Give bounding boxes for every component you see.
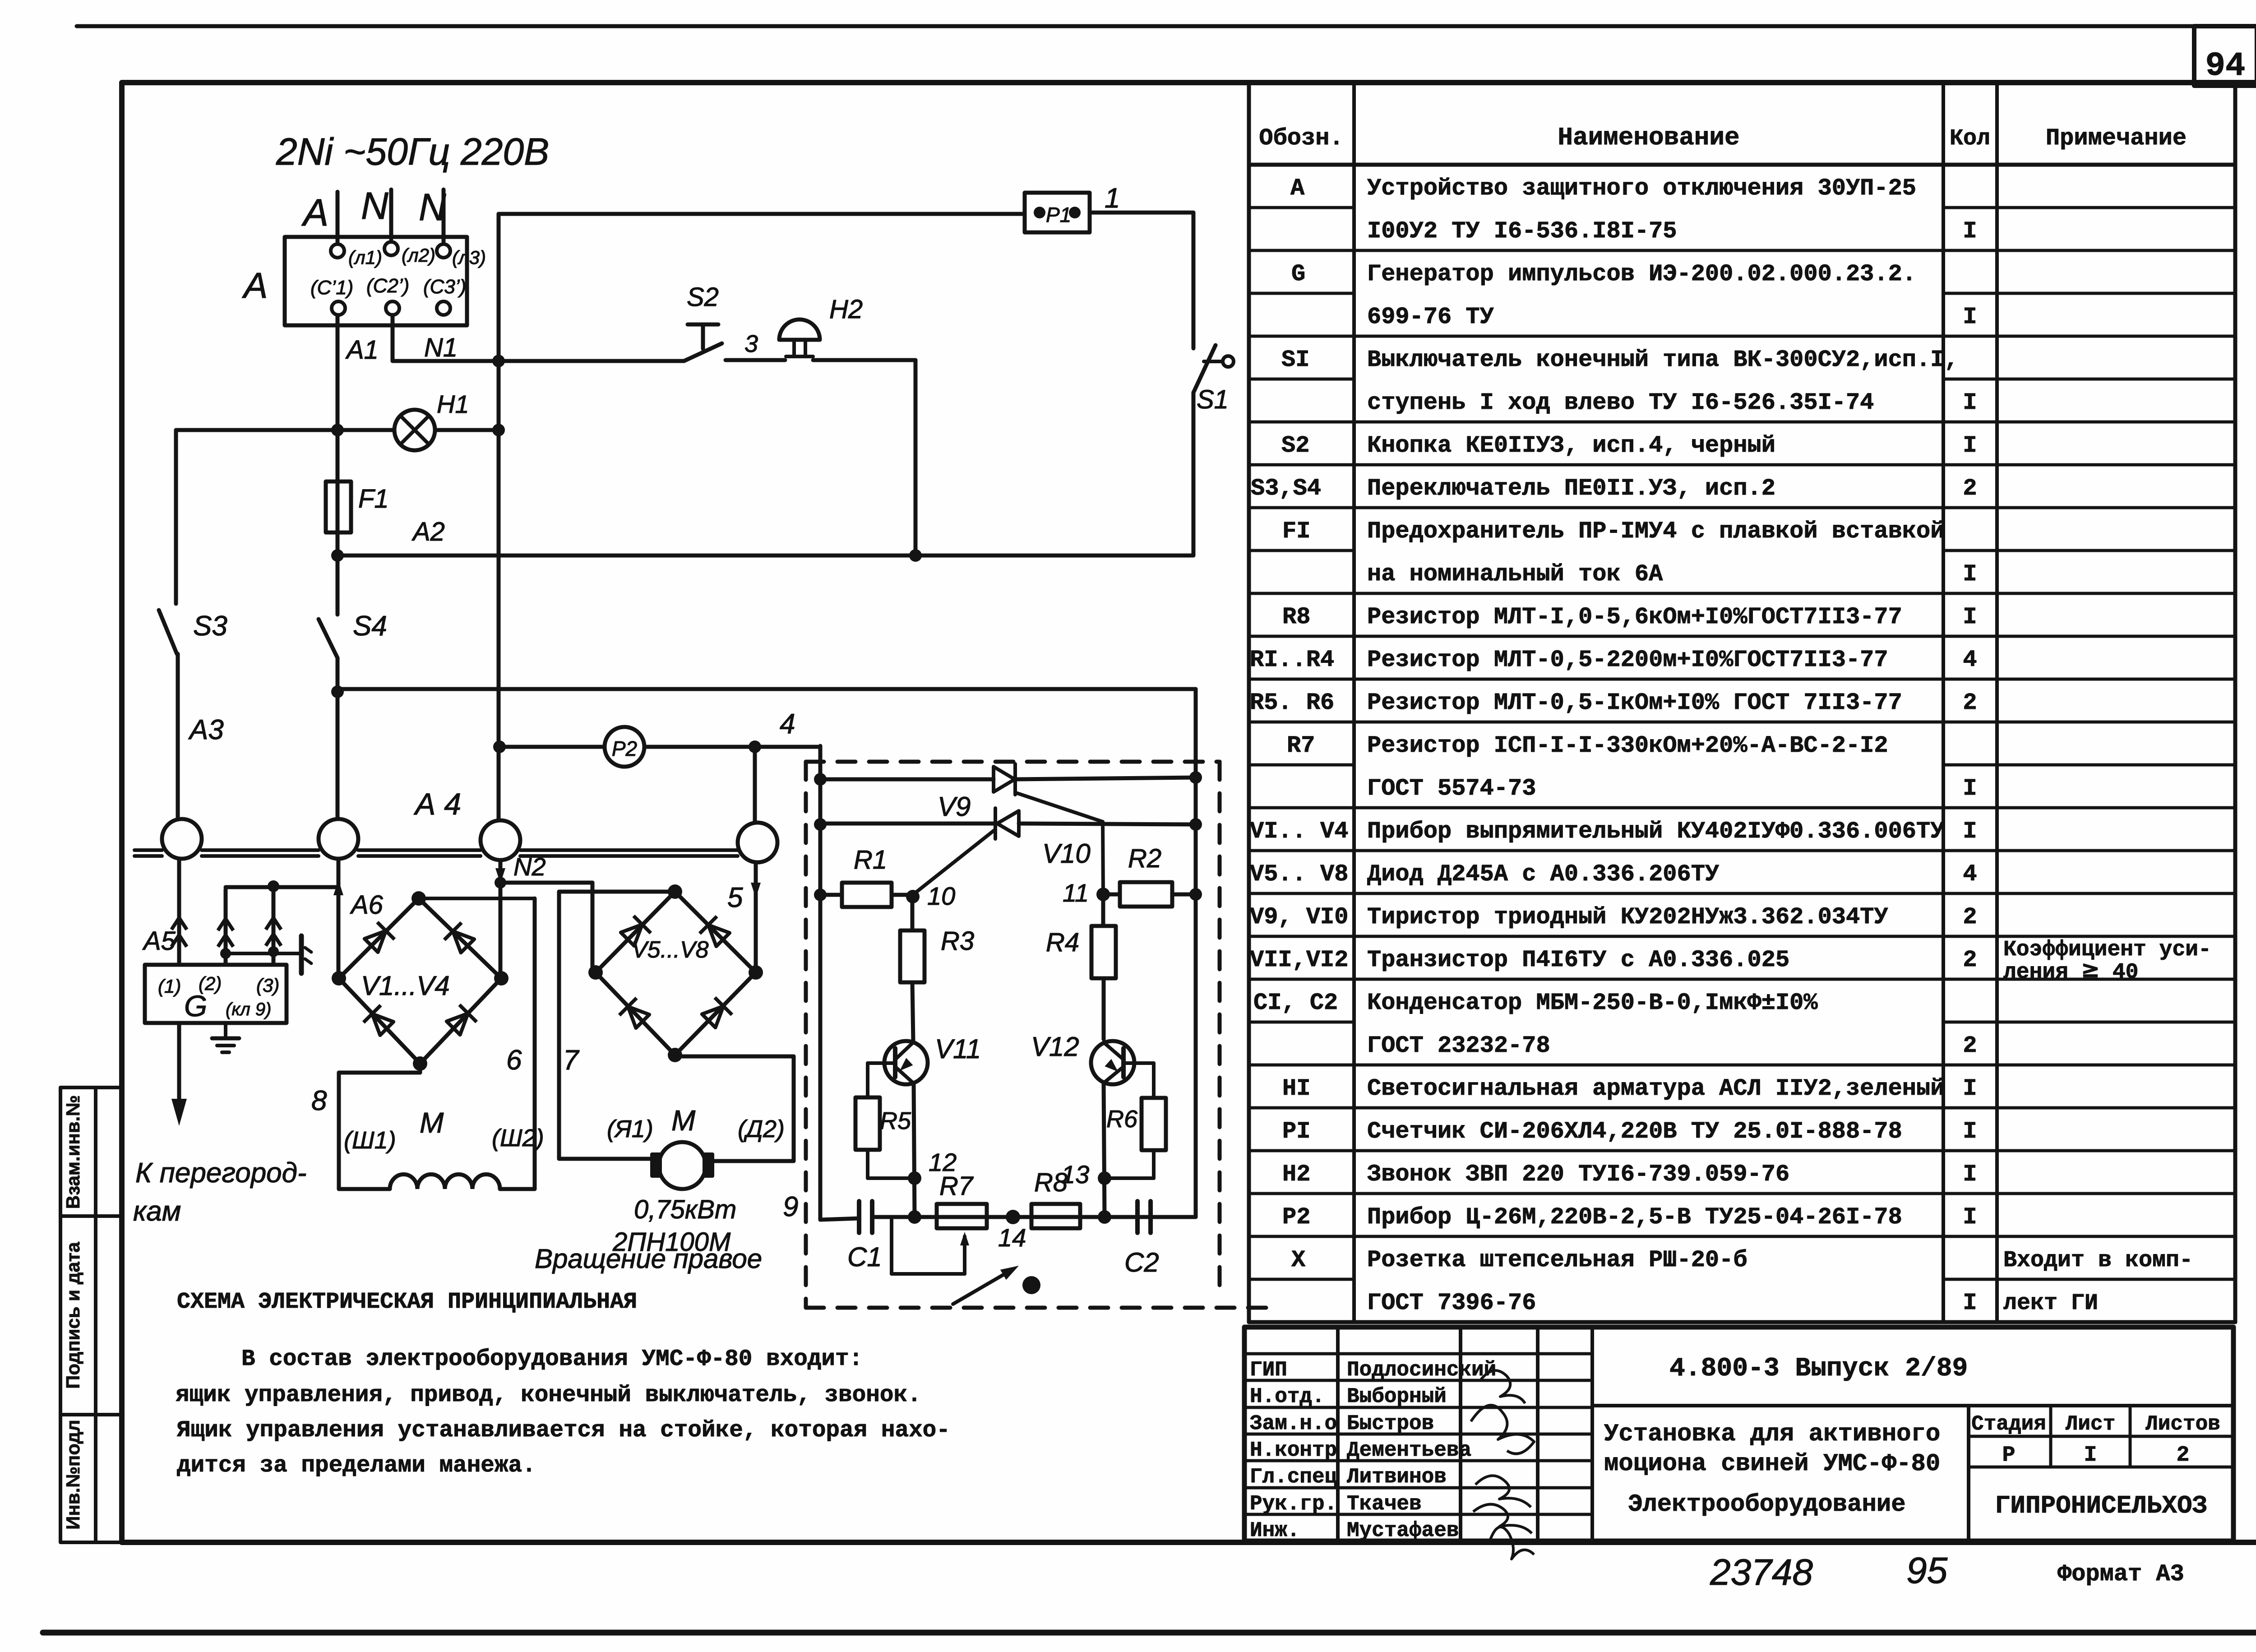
svg-text:2: 2 — [1963, 1032, 1977, 1059]
svg-text:Выключатель конечный типа ВК-3: Выключатель конечный типа ВК-300СУ2,исп.… — [1367, 347, 1959, 373]
svg-text:Н2: Н2 — [829, 295, 863, 324]
svg-text:CI, C2: CI, C2 — [1253, 990, 1338, 1016]
node 13 / emitter wire — [1061, 1084, 1111, 1217]
svg-text:дится за пределами манежа.: дится за пределами манежа. — [177, 1453, 536, 1479]
svg-text:А: А — [1290, 175, 1305, 202]
svg-text:R5: R5 — [880, 1107, 911, 1134]
lamp H1 — [394, 390, 469, 450]
svg-text:V11: V11 — [935, 1034, 981, 1064]
capacitor C2 — [1098, 1201, 1159, 1277]
svg-text:14: 14 — [998, 1223, 1026, 1252]
wire from bell to A2 — [813, 358, 915, 362]
svg-text:Светосигнальная арматура АСЛ I: Светосигнальная арматура АСЛ IIУ2,зелены… — [1367, 1075, 1944, 1102]
svg-text:Прибор Ц-26М,220В-2,5-В ТУ25-0: Прибор Ц-26М,220В-2,5-В ТУ25-04-26I-78 — [1367, 1204, 1902, 1231]
svg-text:Обозн.: Обозн. — [1259, 125, 1343, 152]
svg-text:2: 2 — [1963, 689, 1977, 716]
resistor R2 — [1103, 844, 1202, 907]
svg-text:V10: V10 — [1042, 838, 1091, 869]
wire G pin2 — [218, 887, 338, 965]
node 11 — [1096, 888, 1110, 901]
transistor V11 — [868, 1034, 981, 1097]
svg-text:Наименование: Наименование — [1558, 123, 1739, 152]
counter P1 — [1025, 193, 1090, 232]
svg-text:R4: R4 — [1046, 928, 1079, 957]
svg-text:(Ш1): (Ш1) — [344, 1127, 396, 1154]
svg-text:N: N — [419, 186, 446, 228]
svg-text:6: 6 — [506, 1045, 522, 1076]
connector circle 3 — [481, 820, 520, 860]
svg-text:R3: R3 — [941, 926, 974, 956]
svg-text:А3: А3 — [188, 714, 224, 745]
svg-text:R1: R1 — [854, 845, 887, 875]
svg-text:(кл 9): (кл 9) — [226, 1000, 271, 1019]
svg-text:А 4: А 4 — [413, 787, 461, 821]
wire A2 — [331, 517, 1193, 562]
switch S4 — [319, 430, 387, 819]
svg-text:М: М — [420, 1106, 444, 1139]
svg-text:SI: SI — [1281, 347, 1309, 373]
svg-text:А2: А2 — [411, 517, 445, 546]
node 14 — [1006, 1210, 1020, 1224]
svg-text:Листов: Листов — [2145, 1412, 2220, 1436]
svg-text:7: 7 — [563, 1045, 580, 1076]
bell H2 — [779, 295, 863, 356]
ground (earth) below G — [212, 1023, 239, 1052]
svg-text:3: 3 — [744, 330, 758, 357]
switch S3 — [159, 430, 227, 819]
svg-text:Розетка штепсельная РШ-20-б: Розетка штепсельная РШ-20-б — [1367, 1247, 1747, 1273]
svg-text:(Д2): (Д2) — [738, 1115, 785, 1143]
svg-text:8: 8 — [311, 1085, 327, 1116]
resistor R1 — [814, 845, 913, 907]
thyristor V9 with gate to node 11 — [814, 764, 1202, 894]
svg-text:R7: R7 — [939, 1171, 974, 1201]
svg-text:(л3): (л3) — [452, 247, 486, 268]
svg-text:Лист: Лист — [2066, 1412, 2115, 1436]
svg-text:Рук.гр.: Рук.гр. — [1250, 1492, 1337, 1516]
svg-text:Счетчик СИ-206ХЛ4,220В ТУ 25.0: Счетчик СИ-206ХЛ4,220В ТУ 25.0I-888-78 — [1367, 1118, 1902, 1145]
svg-text:(С’1): (С’1) — [310, 277, 353, 299]
svg-text:Резистор МЛТ-0,5-2200м+I0%ГОСТ: Резистор МЛТ-0,5-2200м+I0%ГОСТ7II3-77 — [1367, 647, 1888, 673]
svg-text:I: I — [1963, 604, 1977, 630]
svg-text:Формат А3: Формат А3 — [2057, 1561, 2184, 1587]
svg-text:К перегород-: К перегород- — [135, 1157, 307, 1189]
svg-text:Н2: Н2 — [1282, 1161, 1310, 1188]
connector circle 2 — [319, 819, 358, 859]
svg-text:N: N — [361, 185, 388, 227]
svg-text:Выборный: Выборный — [1347, 1385, 1447, 1408]
svg-text:ления ≧ 40: ления ≧ 40 — [2003, 960, 2138, 985]
svg-text:1: 1 — [1105, 183, 1120, 214]
svg-text:S2: S2 — [687, 282, 719, 312]
svg-text:V1...V4: V1...V4 — [361, 971, 450, 1001]
svg-text:RI..R4: RI..R4 — [1250, 647, 1334, 673]
resistor R8 — [1031, 1168, 1080, 1228]
connector circle 4 — [738, 823, 777, 862]
svg-text:В состав электрооборудования У: В состав электрооборудования УМС-Ф-80 вх… — [241, 1347, 863, 1372]
svg-text:(Ш2): (Ш2) — [492, 1124, 544, 1152]
svg-text:V9: V9 — [938, 791, 971, 822]
thyristor V10 with gate to node 10 — [814, 808, 1202, 895]
svg-text:Генератор импульсов ИЭ-200.02.: Генератор импульсов ИЭ-200.02.000.23.2. — [1367, 261, 1916, 287]
svg-text:2Nі ~50Гц 220В: 2Nі ~50Гц 220В — [276, 130, 549, 173]
svg-text:4: 4 — [1963, 861, 1977, 888]
svg-text:Предохранитель ПР-IМУ4 с плавк: Предохранитель ПР-IМУ4 с плавкой вставко… — [1367, 518, 1944, 545]
wire N2 (circle3 to bridges) — [495, 852, 592, 978]
svg-text:Н.отд.: Н.отд. — [1250, 1385, 1325, 1408]
svg-text:Вращение правое: Вращение правое — [535, 1244, 762, 1274]
bridge rectifier V1...V4 — [332, 891, 509, 1071]
svg-text:I: I — [1963, 1290, 1977, 1316]
svg-text:4: 4 — [1963, 647, 1977, 673]
svg-text:I: I — [1963, 1118, 1977, 1145]
svg-text:Литвинов: Литвинов — [1347, 1465, 1447, 1489]
wire input N — [361, 185, 391, 239]
svg-text:Входит в комп-: Входит в комп- — [2003, 1248, 2193, 1273]
svg-text:(3): (3) — [256, 975, 279, 996]
svg-text:Коэффициент уси-: Коэффициент уси- — [2003, 938, 2211, 962]
generator G box — [145, 965, 287, 1023]
motor M armature (Я1-Д2) — [535, 1055, 794, 1274]
wire from P1 to S1 — [1090, 211, 1193, 215]
svg-text:95: 95 — [1906, 1550, 1948, 1591]
svg-text:5: 5 — [727, 882, 743, 913]
node 12 / emitter wire — [908, 1084, 957, 1217]
svg-text:ГОСТ 23232-78: ГОСТ 23232-78 — [1367, 1032, 1550, 1059]
wire node 3 (S2 to bell) — [726, 358, 785, 362]
svg-text:V5...V8: V5...V8 — [632, 937, 709, 963]
transistor V12 — [1031, 1032, 1154, 1098]
svg-text:Н.контр: Н.контр — [1250, 1439, 1337, 1462]
svg-text:I: I — [1963, 218, 1977, 245]
svg-text:РI: РI — [1282, 1118, 1310, 1145]
wire 5 (circle4 to bridge V5..V8) — [727, 862, 761, 972]
svg-text:Прибор выпрямительный КУ402IУФ: Прибор выпрямительный КУ402IУФ0.336.006Т… — [1367, 818, 1944, 845]
svg-text:ГОСТ 7396-76: ГОСТ 7396-76 — [1367, 1290, 1536, 1316]
svg-text:Транзистор П4I6ТУ с А0.336.025: Транзистор П4I6ТУ с А0.336.025 — [1367, 947, 1789, 973]
wire: main vertical from top wire to circle 3 — [497, 214, 501, 820]
svg-text:Кол: Кол — [1950, 126, 1990, 152]
svg-text:2: 2 — [2177, 1443, 2190, 1467]
svg-text:(л1): (л1) — [348, 247, 382, 268]
svg-text:11: 11 — [1063, 879, 1089, 907]
svg-text:I: I — [1963, 304, 1977, 330]
svg-text:X: X — [1291, 1247, 1306, 1273]
svg-text:ГИП: ГИП — [1250, 1358, 1287, 1382]
svg-text:А6: А6 — [350, 890, 384, 920]
wire A5 with chevrons and arrow "К перегородкам" — [133, 859, 307, 1227]
resistor R6 — [1105, 1098, 1166, 1178]
svg-text:Резистор МЛТ-0,5-IкОм+I0% ГОСТ: Резистор МЛТ-0,5-IкОм+I0% ГОСТ 7II3-77 — [1367, 689, 1902, 716]
wire G pin3 — [266, 880, 281, 965]
wire 4 — [749, 708, 820, 823]
svg-text:ящик управления, привод, конеч: ящик управления, привод, конечный выключ… — [176, 1383, 921, 1408]
svg-text:R7: R7 — [1287, 732, 1315, 759]
svg-text:НI: НI — [1282, 1075, 1310, 1102]
svg-text:I00У2 ТУ I6-536.I8I-75: I00У2 ТУ I6-536.I8I-75 — [1367, 218, 1677, 245]
svg-text:R5. R6: R5. R6 — [1250, 689, 1334, 716]
wire from S4 to control-unit right bus — [337, 687, 1196, 691]
svg-text:R6: R6 — [1106, 1106, 1138, 1133]
svg-text:Р2: Р2 — [612, 737, 637, 760]
wire N1 — [393, 315, 505, 367]
wire A1 — [337, 315, 379, 430]
svg-text:ГИПРОНИСЕЛЬХОЗ: ГИПРОНИСЕЛЬХОЗ — [1995, 1491, 2207, 1520]
svg-text:А1: А1 — [345, 335, 379, 365]
svg-text:9: 9 — [783, 1191, 798, 1222]
svg-text:0,75кВт: 0,75кВт — [634, 1195, 736, 1224]
svg-text:Гл.спец: Гл.спец — [1250, 1465, 1337, 1489]
wire input phase A — [301, 191, 337, 242]
potentiometer R7 with wiper — [892, 1171, 987, 1274]
svg-text:на номинальный ток 6А: на номинальный ток 6А — [1367, 561, 1663, 588]
svg-text:4: 4 — [780, 708, 795, 740]
wire input N (second) — [419, 186, 446, 242]
schema caption and description text — [176, 1289, 950, 1479]
device A: residual current device box with terminals — [242, 237, 486, 325]
svg-text:Конденсатор МБМ-250-В-0,IмкФ±I: Конденсатор МБМ-250-В-0,IмкФ±I0% — [1367, 990, 1818, 1016]
svg-text:S2: S2 — [1281, 432, 1309, 459]
adjustment arrow and dot — [953, 1261, 1040, 1304]
svg-text:Диод Д245А с А0.336.206ТУ: Диод Д245А с А0.336.206ТУ — [1367, 861, 1719, 888]
svg-text:I: I — [1963, 1204, 1977, 1231]
svg-text:R2: R2 — [1128, 844, 1161, 873]
wire H1 row — [176, 424, 505, 436]
svg-text:10: 10 — [927, 882, 955, 910]
svg-text:Переключатель ПЕ0II.УЗ, исп.2: Переключатель ПЕ0II.УЗ, исп.2 — [1367, 475, 1775, 502]
svg-text:Р2: Р2 — [1282, 1204, 1310, 1231]
svg-text:(1): (1) — [158, 976, 181, 997]
svg-text:Стадия: Стадия — [1971, 1412, 2046, 1436]
ground (chassis) near G — [226, 936, 311, 973]
svg-text:I: I — [1963, 1161, 1977, 1188]
svg-text:Н1: Н1 — [437, 390, 469, 418]
svg-text:N1: N1 — [424, 333, 458, 362]
svg-text:А5: А5 — [142, 926, 176, 956]
svg-text:Инв.№подл: Инв.№подл — [62, 1420, 83, 1530]
svg-text:S3,S4: S3,S4 — [1251, 475, 1321, 502]
svg-text:I: I — [1963, 561, 1977, 588]
svg-text:Резистор IСП-I-I-330кОм+20%-А-: Резистор IСП-I-I-330кОм+20%-А-ВС-2-I2 — [1367, 732, 1888, 759]
svg-text:Ящик управления устанавливаетс: Ящик управления устанавливается на стойк… — [177, 1418, 950, 1444]
svg-text:2: 2 — [1963, 475, 1977, 502]
svg-text:V9, VI0: V9, VI0 — [1250, 904, 1348, 930]
svg-text:Звонок ЗВП 220 ТУI6-739.059-7: Звонок ЗВП 220 ТУI6-739.059-76 — [1367, 1161, 1789, 1188]
svg-text:кам: кам — [133, 1196, 181, 1227]
wire: bottom internal line — [820, 1218, 859, 1220]
svg-text:I: I — [1963, 389, 1977, 416]
wire 6 (bridge1 + to shunt winding) — [419, 898, 535, 1189]
svg-text:VI.. V4: VI.. V4 — [1250, 818, 1348, 845]
svg-text:Р1: Р1 — [1046, 203, 1071, 227]
svg-text:(Я1): (Я1) — [607, 1115, 653, 1143]
svg-text:S3: S3 — [193, 611, 227, 642]
switch S1 (limit switch) — [1193, 345, 1234, 414]
svg-text:2: 2 — [1963, 947, 1977, 973]
svg-text:С2: С2 — [1124, 1247, 1159, 1277]
svg-text:Тиристор триодный КУ202НУж3.36: Тиристор триодный КУ202НУж3.362.034ТУ — [1367, 904, 1888, 930]
svg-text:А: А — [242, 265, 268, 305]
svg-text:Ткачев: Ткачев — [1347, 1492, 1422, 1516]
svg-text:23748: 23748 — [1710, 1552, 1813, 1593]
svg-text:Устройство защитного отключени: Устройство защитного отключения 30УП-25 — [1367, 175, 1916, 202]
svg-text:С1: С1 — [847, 1242, 882, 1272]
svg-text:I: I — [1963, 775, 1977, 802]
meter P2 — [493, 727, 755, 767]
fuse F1 — [326, 481, 389, 532]
svg-text:VII,VI2: VII,VI2 — [1250, 947, 1348, 973]
svg-text:I: I — [2084, 1443, 2097, 1467]
svg-text:(С2’): (С2’) — [366, 275, 409, 297]
svg-text:А: А — [301, 191, 328, 234]
pushbutton S2 — [684, 282, 758, 361]
svg-text:(С3’): (С3’) — [423, 276, 466, 298]
svg-text:R8: R8 — [1034, 1168, 1068, 1197]
svg-text:лект ГИ: лект ГИ — [2003, 1291, 2098, 1316]
svg-text:Быстров: Быстров — [1347, 1412, 1434, 1435]
svg-text:Примечание: Примечание — [2046, 125, 2187, 152]
node 10 — [906, 890, 920, 903]
svg-text:I: I — [1963, 432, 1977, 459]
svg-text:Установка для активного: Установка для активного — [1604, 1421, 1940, 1448]
svg-text:Дементьева: Дементьева — [1347, 1439, 1471, 1462]
svg-text:FI: FI — [1282, 518, 1310, 545]
svg-text:N2: N2 — [513, 852, 546, 881]
svg-text:(л2): (л2) — [402, 245, 435, 266]
svg-text:Подлосинский: Подлосинский — [1347, 1358, 1496, 1382]
bus A4 (double line with connector circles) — [134, 787, 738, 856]
wire 1 (top run to counter P1) — [499, 183, 1120, 214]
svg-text:G: G — [1291, 261, 1305, 287]
svg-text:G: G — [184, 989, 207, 1023]
svg-text:Подпись и дата: Подпись и дата — [62, 1242, 83, 1389]
svg-text:Электрооборудование: Электрооборудование — [1628, 1491, 1906, 1518]
resistor R5 — [855, 1097, 914, 1178]
resistor R3 — [900, 897, 974, 1041]
wire N1 branch to S2 — [499, 359, 684, 363]
svg-text:Взам.инв.№: Взам.инв.№ — [62, 1095, 83, 1209]
dashed enclosure (control unit) — [806, 762, 1268, 1308]
svg-text:S4: S4 — [353, 611, 387, 642]
svg-text:94: 94 — [2205, 47, 2246, 85]
svg-text:I: I — [1963, 818, 1977, 845]
svg-text:V12: V12 — [1031, 1032, 1079, 1062]
svg-text:ступень I ход влево ТУ I6-526.: ступень I ход влево ТУ I6-526.35I-74 — [1367, 389, 1874, 416]
svg-text:I: I — [1963, 1075, 1977, 1102]
wire from S1 down to A2 — [1192, 393, 1196, 555]
svg-text:4.800-3 Выпуск 2/89: 4.800-3 Выпуск 2/89 — [1669, 1354, 1968, 1384]
svg-text:2: 2 — [1963, 904, 1977, 930]
wire: left internal bus (continuation of wire 4) — [818, 746, 823, 1220]
svg-text:S1: S1 — [1197, 385, 1229, 414]
svg-text:R8: R8 — [1282, 604, 1310, 630]
svg-text:ГОСТ 5574-73: ГОСТ 5574-73 — [1367, 775, 1536, 802]
resistor R4 — [1046, 894, 1116, 1039]
svg-text:Инж.: Инж. — [1250, 1519, 1299, 1542]
svg-text:СХЕМА ЭЛЕКТРИЧЕСКАЯ ПРИНЦИПИАЛ: СХЕМА ЭЛЕКТРИЧЕСКАЯ ПРИНЦИПИАЛЬНАЯ — [177, 1289, 637, 1315]
svg-text:Мустафаев: Мустафаев — [1347, 1519, 1459, 1542]
svg-text:Зам.н.о: Зам.н.о — [1250, 1412, 1337, 1435]
svg-text:Р: Р — [2002, 1443, 2016, 1467]
svg-text:Кнопка КЕ0IIУЗ, исп.4, черный: Кнопка КЕ0IIУЗ, исп.4, черный — [1367, 432, 1775, 459]
capacitor C1 — [847, 1201, 882, 1272]
connector circle 1 — [162, 819, 202, 859]
svg-text:699-76 ТУ: 699-76 ТУ — [1367, 304, 1494, 330]
svg-text:М: М — [671, 1104, 696, 1137]
svg-text:F1: F1 — [358, 484, 389, 514]
wire: right internal bus — [1194, 766, 1198, 1217]
wire 7 (bridge2 + to armature) — [559, 892, 675, 1159]
svg-text:V5.. V8: V5.. V8 — [1250, 861, 1348, 888]
bridge rectifier V5...V8 — [588, 884, 763, 1062]
svg-text:моциона свиней УМС-Ф-80: моциона свиней УМС-Ф-80 — [1604, 1450, 1940, 1478]
wire 8 / shunt winding M (Ш1-Ш2) — [311, 1064, 544, 1189]
wire A6 (circle2 to bridge V1..V4) — [333, 859, 384, 978]
svg-text:Резистор МЛТ-I,0-5,6кОм+I0%ГОС: Резистор МЛТ-I,0-5,6кОм+I0%ГОСТ7II3-77 — [1367, 604, 1902, 630]
